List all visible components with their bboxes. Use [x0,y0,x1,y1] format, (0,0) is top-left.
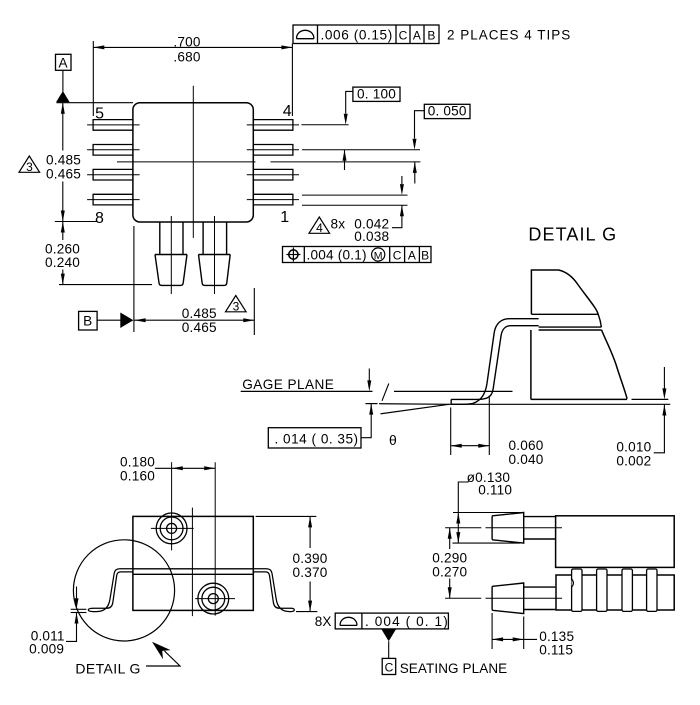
svg-text:θ: θ [389,432,397,448]
svg-text:0.110: 0.110 [478,483,512,498]
svg-text:A: A [408,248,416,262]
svg-text:DETAIL G: DETAIL G [75,661,140,677]
svg-text:.004 (0.1): .004 (0.1) [307,247,367,262]
svg-text:0.485: 0.485 [46,153,81,168]
svg-text:M: M [374,250,383,262]
svg-text:DETAIL G: DETAIL G [528,225,617,245]
svg-text:.006 (0.15): .006 (0.15) [321,27,393,42]
svg-text:A: A [413,28,421,42]
svg-text:4: 4 [283,103,292,120]
svg-text:.700: .700 [173,34,200,49]
svg-text:0.002: 0.002 [616,454,651,469]
svg-text:0.290: 0.290 [432,550,467,565]
svg-text:0.180: 0.180 [120,454,155,469]
svg-text:SEATING PLANE: SEATING PLANE [400,661,508,676]
svg-text:B: B [83,313,92,328]
svg-text:0.370: 0.370 [292,565,327,580]
svg-text:2 PLACES 4 TIPS: 2 PLACES 4 TIPS [447,27,571,42]
svg-text:0.465: 0.465 [46,167,81,182]
svg-text:0.465: 0.465 [182,320,217,335]
svg-text:C: C [385,660,394,674]
svg-text:0. 050: 0. 050 [428,104,467,119]
svg-text:0. 100: 0. 100 [357,86,396,101]
svg-text:5: 5 [95,106,104,123]
svg-text:8X: 8X [315,614,332,629]
svg-text:B: B [421,248,429,262]
svg-text:. 014 ( 0. 35): . 014 ( 0. 35) [275,431,359,446]
svg-text:0.115: 0.115 [539,643,573,658]
svg-text:.680: .680 [173,49,200,64]
svg-text:C: C [393,248,402,262]
svg-text:8: 8 [95,210,104,227]
svg-text:GAGE PLANE: GAGE PLANE [242,377,334,392]
svg-text:C: C [399,28,408,42]
svg-text:3: 3 [233,300,240,314]
svg-text:A: A [59,56,69,71]
svg-text:0.009: 0.009 [29,642,64,657]
svg-text:4: 4 [316,221,323,235]
svg-text:0.060: 0.060 [509,438,544,453]
svg-text:0.260: 0.260 [45,241,80,256]
svg-text:0.010: 0.010 [616,440,651,455]
svg-text:1: 1 [280,209,289,226]
svg-text:0.240: 0.240 [45,255,80,270]
svg-text:B: B [427,28,435,42]
svg-text:3: 3 [26,160,33,174]
svg-text:0.390: 0.390 [292,551,327,566]
svg-text:0.485: 0.485 [182,306,217,321]
svg-text:. 004 ( 0. 1): . 004 ( 0. 1) [365,614,449,629]
svg-text:0.040: 0.040 [509,452,544,467]
svg-text:0.270: 0.270 [432,564,467,579]
svg-text:8x: 8x [331,216,346,231]
svg-text:0.038: 0.038 [354,229,389,244]
svg-text:0.160: 0.160 [120,468,155,483]
